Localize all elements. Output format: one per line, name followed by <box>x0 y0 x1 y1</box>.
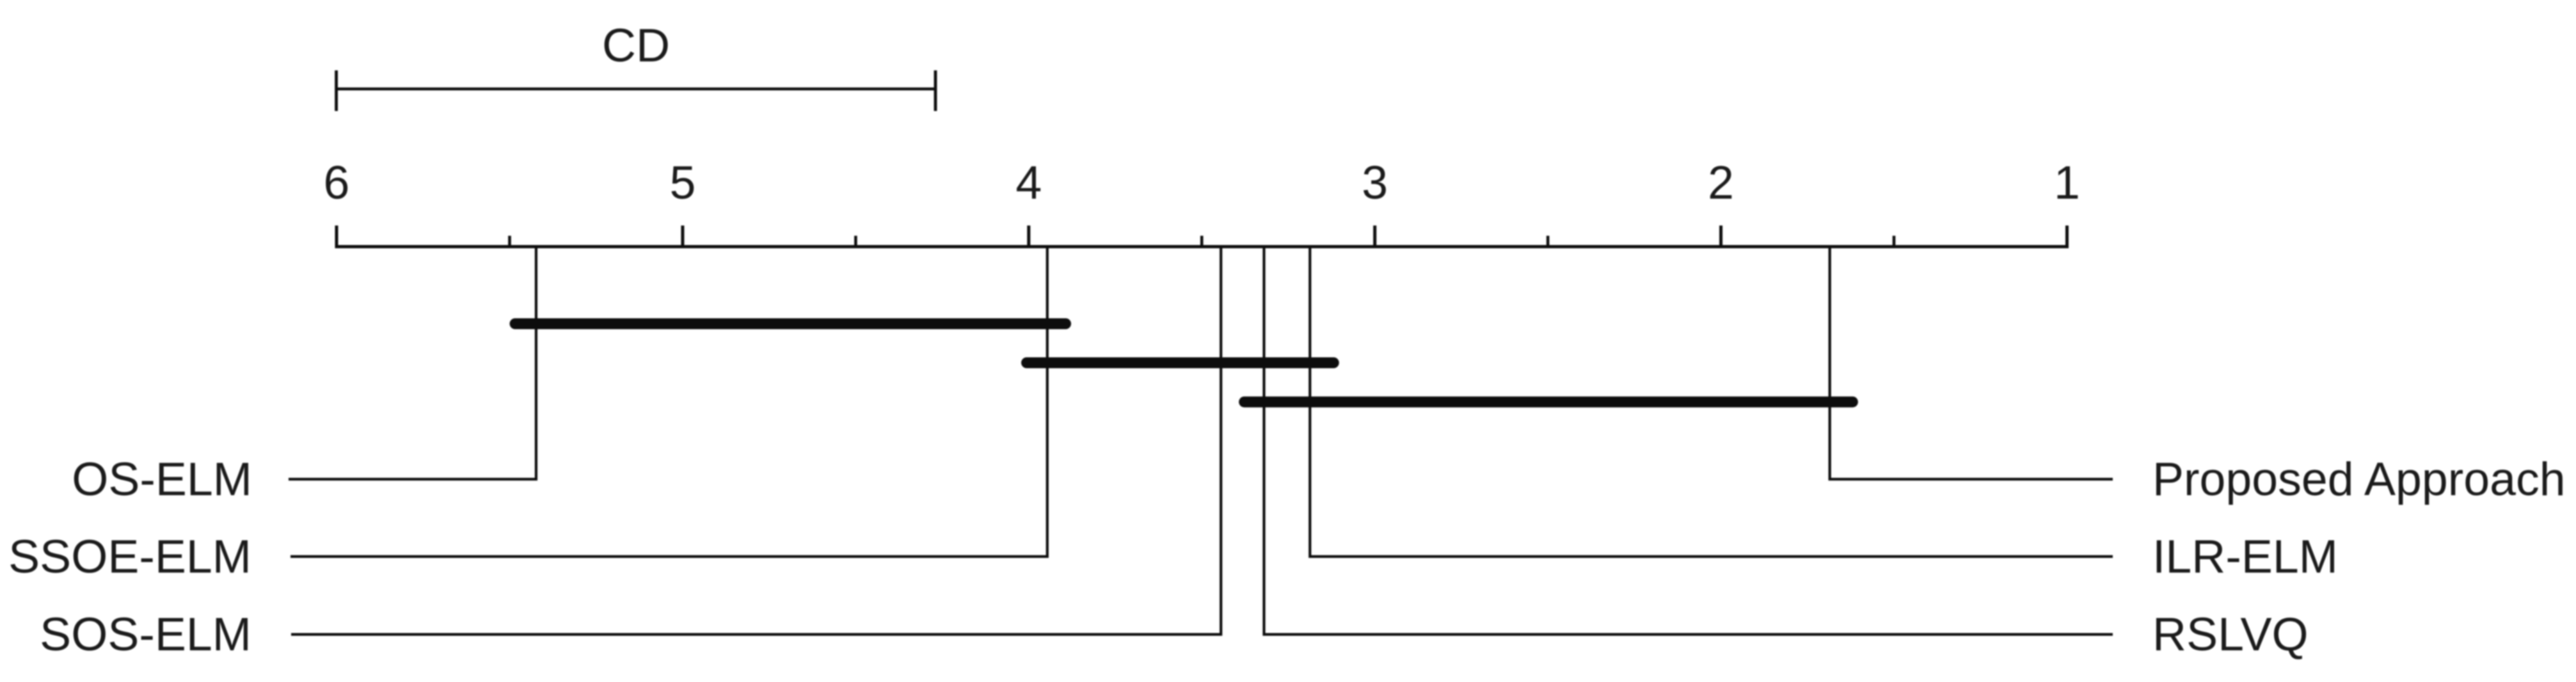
CD interval right serif <box>934 70 937 111</box>
minor tick 1.5 <box>1893 236 1896 247</box>
svg-text:RSLVQ: RSLVQ <box>2152 608 2309 661</box>
minor tick 5.5 <box>508 236 511 247</box>
axis main line <box>335 245 2069 248</box>
svg-text:SOS-ELM: SOS-ELM <box>40 608 251 661</box>
svg-text:1: 1 <box>2054 156 2080 209</box>
svg-text:ILR-ELM: ILR-ELM <box>2152 530 2338 583</box>
SOS-ELM drop line <box>291 247 1221 635</box>
minor tick 4.5 <box>854 236 857 247</box>
major tick 2 <box>1719 226 1722 247</box>
major tick 6 <box>335 226 338 247</box>
major tick 3 <box>1373 226 1376 247</box>
svg-text:6: 6 <box>324 156 350 209</box>
svg-text:SSOE-ELM: SSOE-ELM <box>8 530 251 583</box>
Proposed Approach drop line <box>1830 247 2113 480</box>
clique bar SSOE-ELM to ILR-ELM <box>1027 358 1334 369</box>
OS-ELM drop line <box>289 247 536 480</box>
major tick 1 <box>2065 226 2069 247</box>
RSLVQ drop line <box>1264 247 2113 635</box>
major tick 4 <box>1027 226 1030 247</box>
clique bar RSLVQ to Proposed Approach <box>1244 397 1853 408</box>
svg-text:Proposed Approach: Proposed Approach <box>2152 452 2566 505</box>
svg-text:3: 3 <box>1362 156 1388 209</box>
clique bar OS-ELM to SSOE-ELM <box>515 319 1066 329</box>
ILR-ELM drop line <box>1310 247 2113 557</box>
svg-text:OS-ELM: OS-ELM <box>72 452 252 505</box>
svg-text:5: 5 <box>669 156 696 209</box>
major tick 5 <box>681 226 684 247</box>
minor tick 2.5 <box>1546 236 1550 247</box>
svg-text:2: 2 <box>1708 156 1734 209</box>
SSOE-ELM drop line <box>290 247 1047 557</box>
svg-text:CD: CD <box>602 19 670 72</box>
CD interval left serif <box>335 70 338 111</box>
svg-text:4: 4 <box>1015 156 1042 209</box>
CD interval bar <box>337 88 935 91</box>
minor tick 3.5 <box>1200 236 1204 247</box>
